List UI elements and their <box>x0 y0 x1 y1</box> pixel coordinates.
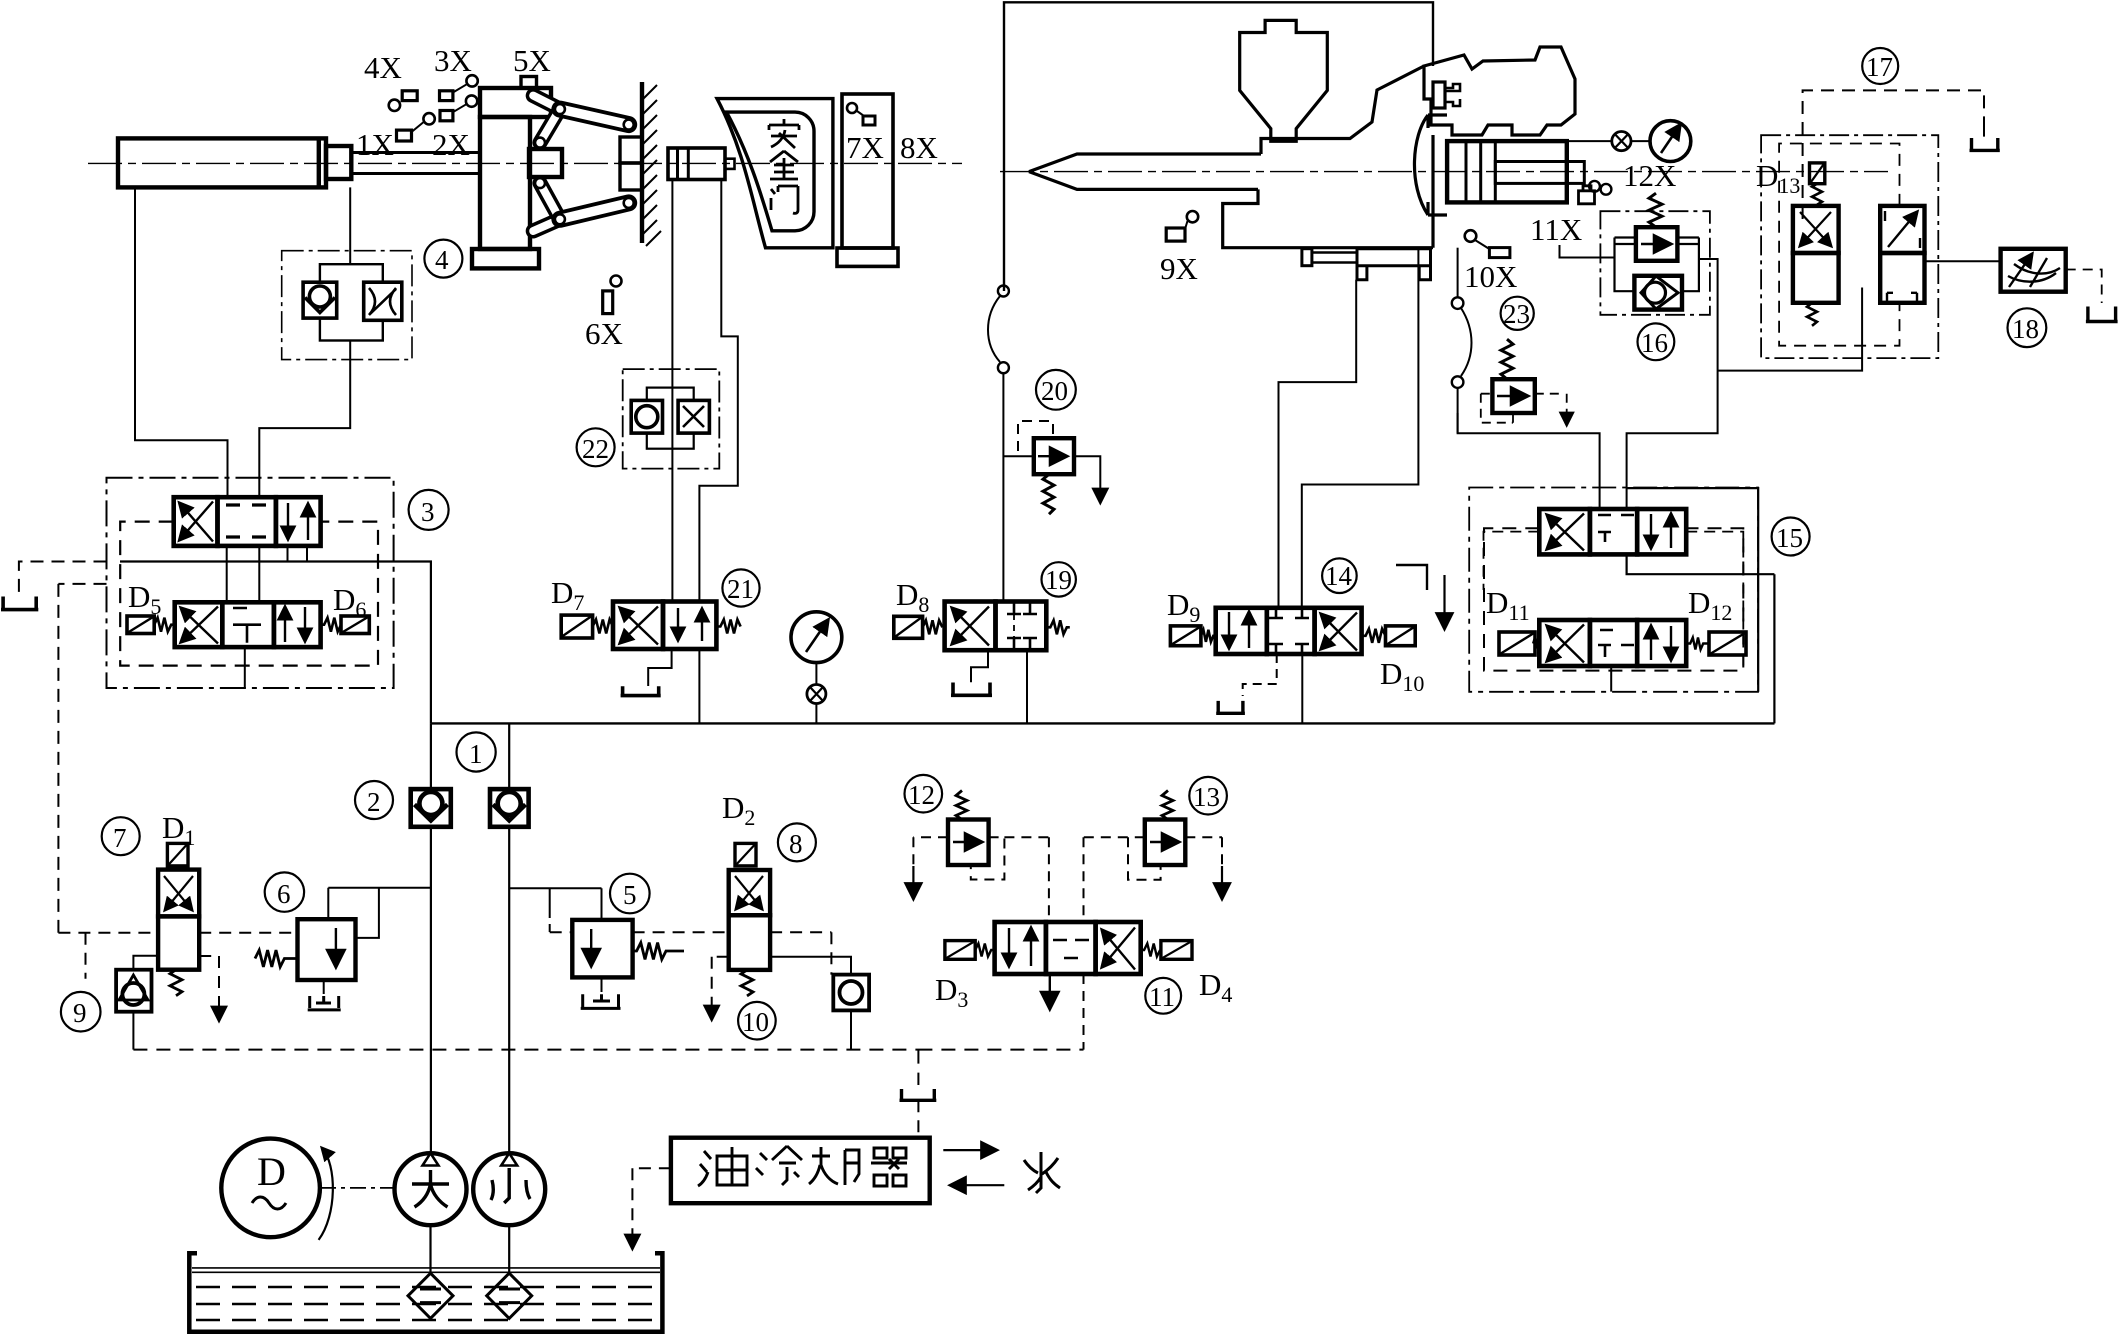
toggle link lower-short (platen to elbow) <box>533 219 560 231</box>
label circled 18 <box>2008 308 2047 347</box>
5X target square on platen <box>521 77 537 89</box>
wire valve20 inlet <box>1003 455 1033 457</box>
toggle pin circles upper <box>555 104 565 114</box>
spring D4 side <box>1141 944 1160 957</box>
valve 20 relief square <box>1034 438 1074 474</box>
wire valve23 bottom bus <box>1458 413 1600 509</box>
svg-text:D12: D12 <box>1688 585 1732 625</box>
check valve 2 <box>411 789 451 827</box>
solenoid D11 <box>1499 632 1535 655</box>
svg-text:9X: 9X <box>1160 251 1198 286</box>
wire injection cylinder to gauge <box>1567 140 1612 142</box>
valve 16 check square <box>1634 276 1682 310</box>
comp 17 outer dashed pilot box <box>1803 90 1984 219</box>
solenoid D13 <box>1810 163 1825 184</box>
svg-text:5: 5 <box>623 880 637 910</box>
svg-text:7X: 7X <box>846 130 884 165</box>
7X switch housing <box>842 94 893 248</box>
valve 3 pilot center-cell marks <box>233 608 261 643</box>
svg-text:D2: D2 <box>722 790 755 830</box>
valve 14 arrows cell <box>1228 612 1230 648</box>
valve 16 relief square <box>1636 227 1678 261</box>
solenoid D7 <box>561 615 592 638</box>
text 安 (an) strokes <box>769 119 799 148</box>
platen top block <box>480 88 551 117</box>
svg-text:6: 6 <box>277 879 291 909</box>
solenoid D10 <box>1386 626 1416 646</box>
svg-text:7: 7 <box>113 823 127 853</box>
label circled 10 <box>738 1002 776 1040</box>
spring below valve8 <box>741 970 753 996</box>
wire ejector head-side down <box>671 180 673 602</box>
component 4 pilot check valve square <box>303 282 337 318</box>
valve 16 relief arrow <box>1641 243 1670 245</box>
pump small circle <box>473 1153 545 1225</box>
svg-text:17: 17 <box>1866 52 1893 82</box>
valve 7 drain dashed arrow <box>199 956 219 1020</box>
10X sensor square <box>1489 248 1510 258</box>
valve 7 upper cell <box>158 870 199 917</box>
valve 8 crossed arrows <box>736 876 763 909</box>
dashed cooler outlet to tank <box>632 1168 671 1248</box>
svg-text:D7: D7 <box>551 575 584 615</box>
svg-text:9: 9 <box>73 998 87 1028</box>
svg-text:2: 2 <box>367 787 381 817</box>
body right edge <box>1431 135 1434 248</box>
component 4 inner frame <box>320 264 383 340</box>
spring D3 side <box>975 944 994 957</box>
spring D7 side <box>593 620 613 634</box>
valve 7 crossed arrows <box>165 876 193 910</box>
valve 13 drain arrow <box>1221 866 1223 898</box>
wire comp17 output to valve18 <box>1925 260 2001 262</box>
svg-text:10X: 10X <box>1464 259 1517 294</box>
P bus main line <box>431 722 1775 724</box>
water arrow out <box>943 1149 996 1151</box>
label circled 21 <box>722 569 759 606</box>
pilot relief valve D13 upper cell <box>1793 206 1839 253</box>
centerline injection axis <box>1000 171 1888 173</box>
valve 23 relief square <box>1492 379 1534 413</box>
toggle link lower-long (elbow to wall pin) <box>560 203 629 219</box>
valve 15 upper valve body <box>1539 509 1686 554</box>
svg-text:22: 22 <box>582 434 609 464</box>
check valve 10 <box>833 975 869 1011</box>
tank drain symbol valve18 <box>2086 307 2118 322</box>
comp 17 inner dashed box <box>1779 144 1899 346</box>
pilot relief crossed arrows <box>1800 212 1831 246</box>
valve 13 spring top <box>1162 791 1173 820</box>
svg-text:3: 3 <box>421 497 435 527</box>
svg-text:23: 23 <box>1503 299 1530 329</box>
label circled 4 <box>424 240 462 278</box>
valve 11 right line to drain bus dashed <box>1083 974 1085 1050</box>
spring D12 side <box>1686 638 1709 650</box>
suction filter large <box>408 1273 453 1318</box>
wire clamp rod-side port down <box>349 187 351 264</box>
gauge isolator valve <box>807 685 826 704</box>
label circled 14 <box>1322 558 1357 593</box>
injection cylinder piston <box>1466 141 1495 202</box>
valve 14 crossed cell <box>1321 614 1357 651</box>
svg-text:8X: 8X <box>900 130 938 165</box>
solenoid D4 <box>1161 941 1192 960</box>
valve 11 center marks <box>1053 940 1089 958</box>
wire valve15 lower to bus <box>1610 666 1612 692</box>
valve 15 upper crossed cell <box>1547 515 1584 551</box>
valve 15 upper center marks <box>1598 515 1634 542</box>
spring below valve7 <box>170 970 182 996</box>
spring valve21 right <box>716 620 740 634</box>
wire pilot-valve tank stub <box>244 647 246 688</box>
platen foot <box>472 249 539 268</box>
oil tank walls <box>189 1253 662 1332</box>
valve 15 upper-right pilot dashed <box>1686 532 1743 670</box>
wire valve21 to P bus <box>698 649 700 723</box>
valve 15 lower valve body <box>1539 620 1686 666</box>
valve 3 pilot crossed-arrows cell <box>181 608 218 644</box>
svg-text:12X: 12X <box>1623 158 1676 193</box>
contact 23 arc <box>1461 308 1472 376</box>
wire valve20 outlet arrow <box>1074 456 1100 502</box>
solenoid D12 <box>1709 632 1746 655</box>
svg-text:D: D <box>257 1149 286 1194</box>
valve 21 body <box>613 602 716 650</box>
valve 16 left port line <box>1560 245 1615 258</box>
svg-text:21: 21 <box>727 574 754 604</box>
tank drain symbol valve14 <box>1216 701 1245 713</box>
motor tilde <box>252 1197 286 1209</box>
spring valve19 right <box>1046 620 1070 634</box>
ejector cylinder piston lines <box>678 148 689 180</box>
component 4 throttle valve square <box>364 282 402 320</box>
screw drive motor outline <box>1424 47 1575 135</box>
valve 6 drain <box>323 980 325 994</box>
pilot dashed lower branch from valve3 <box>58 584 106 933</box>
spring D5 side <box>154 618 174 632</box>
pump small outlet triangle <box>501 1153 517 1165</box>
valve 5 drain <box>601 977 603 992</box>
valve 19 blocked-port cell marks <box>1007 602 1037 651</box>
wire body port B down to valve14 <box>1302 248 1419 608</box>
pump suction lines <box>431 1225 510 1273</box>
spring D11 side <box>1533 639 1539 649</box>
valve 8 lower cell <box>729 915 770 970</box>
injection unit border rectangle <box>1004 2 1433 291</box>
label circled 8 <box>778 823 816 861</box>
wire valve19 to P bus <box>1026 650 1028 723</box>
valve 16 check symbol <box>1645 282 1666 303</box>
ejector cylinder body <box>668 148 725 180</box>
valve 11 body <box>995 922 1141 974</box>
wall anchor block upper <box>620 137 642 163</box>
clamp cylinder body <box>118 138 326 187</box>
clamp piston rod <box>351 153 480 174</box>
wire branch to valve6 <box>328 888 431 938</box>
valve group 3 inner dashed box <box>120 522 378 666</box>
valve 23 drain arrow dashed <box>1566 394 1568 425</box>
7X contact circle <box>847 103 857 113</box>
spring D9 side <box>1201 630 1216 642</box>
svg-text:1: 1 <box>469 739 483 769</box>
wire carriage port A down to valve14 <box>1279 280 1357 608</box>
svg-text:D8: D8 <box>896 577 929 617</box>
label circled 11 <box>1145 978 1181 1014</box>
label circled 17 <box>1862 48 1898 84</box>
valve 18 flow symbol <box>2009 254 2032 287</box>
fixed wall line <box>640 82 644 243</box>
valve 20 pilot dashes <box>1018 421 1053 451</box>
svg-text:D1: D1 <box>162 810 195 850</box>
wire P-channel stubs under main valve <box>288 546 308 562</box>
drain dashed bus <box>133 1049 1083 1051</box>
motor rotation arrow <box>319 1148 333 1240</box>
limit switch 2X <box>440 111 453 121</box>
solenoid D2 <box>735 843 756 866</box>
wire valve15 A-port to bus <box>1627 554 1775 723</box>
tank drain symbol valve21 <box>621 686 661 695</box>
wire branch to valve5 <box>509 888 601 920</box>
valve 22 throttle square <box>678 400 709 433</box>
text 全 (quan) strokes <box>770 151 798 179</box>
spring valve5 right <box>633 943 684 960</box>
svg-text:4X: 4X <box>364 50 402 85</box>
svg-text:8: 8 <box>789 829 803 859</box>
water arrow in <box>951 1184 1004 1186</box>
pump large circle <box>395 1153 467 1225</box>
valve 3 main valve body <box>174 497 321 546</box>
tank drain symbol above oil cooler <box>900 1089 937 1100</box>
valve 12 dashed loops <box>913 837 1049 922</box>
wire gauge to bus <box>815 663 817 724</box>
solenoid D5 <box>127 616 154 634</box>
svg-text:14: 14 <box>1325 561 1353 591</box>
svg-text:19: 19 <box>1045 565 1072 595</box>
7X switch base <box>837 248 898 266</box>
valve 3 pilot valve body (D5/D6) <box>175 602 321 647</box>
svg-text:D9: D9 <box>1167 587 1200 627</box>
solenoid D1 <box>167 843 188 866</box>
text 门 (men) strokes <box>771 186 798 213</box>
text 大 <box>412 1170 449 1207</box>
tank drain symbol valve19 <box>951 683 992 696</box>
valve 8 drain dashed arrow <box>712 957 729 1019</box>
drain bus to oil cooler dashed <box>917 1050 919 1085</box>
wall hatching <box>642 85 661 246</box>
oil cooler box <box>671 1138 930 1204</box>
valve 12 drain arrow <box>912 866 914 898</box>
wire body bottom to contact23 <box>1457 248 1459 298</box>
svg-text:D6: D6 <box>333 582 366 622</box>
svg-text:D13: D13 <box>1756 158 1800 198</box>
11X/12X sensor pair at rod end <box>1589 181 1600 192</box>
label circled 20 <box>1036 370 1076 410</box>
label circled 15 <box>1772 518 1810 556</box>
svg-text:2X: 2X <box>432 127 470 162</box>
却 <box>809 1147 859 1185</box>
svg-text:11X: 11X <box>1530 212 1582 247</box>
valve 15 lower arrows cell <box>1650 626 1652 660</box>
wire comp4 to valve3 <box>259 341 350 498</box>
wire valve14 to P bus <box>1301 654 1303 723</box>
centerline clamp axis <box>88 162 962 164</box>
10X sensor circle <box>1465 230 1477 242</box>
valve 3 main float-center marks <box>226 505 266 537</box>
9X sensor circle <box>1187 211 1198 222</box>
svg-text:D5: D5 <box>128 579 161 619</box>
svg-text:12: 12 <box>908 780 935 810</box>
toggle link upper (elbow to crosshead) <box>540 109 560 143</box>
valve 5 relief square <box>572 920 632 978</box>
svg-text:18: 18 <box>2012 314 2039 344</box>
valve 12 spring top <box>956 791 967 820</box>
limit switch 4X <box>389 100 400 111</box>
valve 12 arrow <box>953 841 981 843</box>
pilot relief lower cell <box>1793 253 1839 303</box>
valve 3 pilot parallel arrows cell <box>284 607 286 642</box>
valve 15 lower crossed cell <box>1547 626 1584 663</box>
oil surface lines <box>192 1268 660 1272</box>
valve 14 drain dashes <box>1243 654 1277 696</box>
svg-text:D4: D4 <box>1199 967 1232 1007</box>
valve 23 spring top <box>1501 339 1513 379</box>
clamp cylinder piston <box>317 138 321 187</box>
wire valve8 to check10 <box>770 957 851 975</box>
pump small discharge line <box>508 723 510 1153</box>
svg-text:5X: 5X <box>513 43 551 78</box>
proportional valve 17 upper cell <box>1880 206 1924 253</box>
contact 23 lower circle <box>1452 376 1464 388</box>
pilot drain dashed to left tank <box>19 562 107 595</box>
wire main-to-pilot interconnect right <box>258 546 260 602</box>
pump large outlet triangle <box>423 1153 439 1165</box>
text 油冷却器 <box>698 1146 907 1186</box>
label circled 7 <box>102 817 140 855</box>
valve 14 center-cell blocked marks <box>1269 608 1309 654</box>
spring valve6 left <box>255 950 297 967</box>
spring D6 side <box>321 618 341 632</box>
wire check10 down to drain bus <box>850 1010 852 1049</box>
valve 11 arrows cell <box>1008 928 1010 966</box>
toggle link upper-short (platen block to elbow) <box>533 96 560 110</box>
moving platen column <box>480 117 530 249</box>
wire contact23 to valve23 <box>1457 388 1459 433</box>
label circled 12 <box>905 775 943 813</box>
electric motor circle <box>221 1139 320 1238</box>
tank drain symbol valve5 <box>581 994 621 1008</box>
pilot dashed line through valve7 <box>58 932 297 934</box>
svg-text:10: 10 <box>742 1007 769 1037</box>
label circled 6 <box>265 872 304 911</box>
valve 15 lower center marks <box>1598 630 1634 657</box>
wire clamp head-side port down <box>135 187 228 497</box>
valve 13 relief square <box>1145 820 1186 866</box>
valve 16 inner frame <box>1615 238 1699 292</box>
carriage mount small block <box>1302 249 1312 266</box>
valve 14 body <box>1216 608 1362 654</box>
valve 15 outer dash-dot box <box>1469 488 1758 692</box>
motor shaft fitting <box>1433 82 1445 108</box>
svg-text:3X: 3X <box>434 43 472 78</box>
toggle link lower (elbow to crosshead) <box>540 183 560 219</box>
label circled 22 <box>577 428 615 466</box>
valve 3 main crossed-arrows cell <box>180 503 214 542</box>
svg-text:D10: D10 <box>1380 656 1424 696</box>
limit switch 3X <box>440 91 453 101</box>
label circled 5 <box>610 874 650 914</box>
label circled 13 <box>1189 777 1227 815</box>
label circled 19 <box>1042 562 1076 596</box>
svg-text:D3: D3 <box>935 972 968 1012</box>
valve 19 crossed-arrows cell <box>952 608 989 646</box>
spring below pilot relief <box>1807 303 1817 326</box>
injection screw <box>1029 154 1261 189</box>
valve 6 arrow down <box>335 928 337 966</box>
svg-text:13: 13 <box>1193 782 1220 812</box>
valve 12 relief square <box>948 820 989 866</box>
spring D8 side <box>923 620 943 634</box>
label circled 1 <box>457 732 496 771</box>
pressure gauge 21 area <box>791 612 842 663</box>
solenoid D9 <box>1170 626 1201 646</box>
valve 13 dashed loops <box>1084 837 1223 922</box>
valve 20 spring below <box>1043 474 1054 514</box>
wire check9 down to drain bus <box>132 1012 134 1050</box>
wire valve21 drain step <box>648 649 671 686</box>
spring valve14 right <box>1362 629 1386 643</box>
svg-text:11: 11 <box>1149 982 1175 1012</box>
safety door outer outline <box>717 99 833 248</box>
text 小 <box>491 1168 530 1203</box>
motor coupling dash-dot <box>320 1187 395 1189</box>
proportional valve arrow <box>1888 212 1917 247</box>
svg-text:16: 16 <box>1641 328 1668 358</box>
body lower block <box>1223 189 1433 247</box>
contact 23 upper circle <box>1452 297 1464 309</box>
text 水 <box>1024 1152 1060 1193</box>
valve 21 crossed-arrows cell <box>620 608 658 645</box>
solenoid D3 <box>945 941 975 960</box>
svg-text:D11: D11 <box>1486 585 1530 625</box>
clamp cylinder rod-end cap <box>326 146 351 179</box>
valve group 3 outer dash-dot box <box>107 478 394 688</box>
valve 23 arrow <box>1497 395 1527 397</box>
svg-text:4: 4 <box>435 245 449 275</box>
label circled 23 <box>1501 297 1534 330</box>
valve 23 dashed enclosure <box>1481 394 1562 423</box>
valve 11 drain arrow <box>1049 974 1051 1008</box>
valve 22 outer dash-dot box <box>623 369 720 469</box>
limit switch 6X <box>603 291 613 314</box>
label circled 9 <box>61 992 101 1032</box>
wire contact to valve19 <box>1002 373 1004 601</box>
valve 16 spring top <box>1649 193 1662 227</box>
oil dashed levels <box>196 1287 658 1320</box>
injection cylinder body <box>1447 141 1567 202</box>
tank drain symbol comp17 top <box>1970 138 2000 150</box>
label circled 2 <box>355 781 393 819</box>
tank drain symbol far left upper <box>1 597 38 610</box>
svg-text:20: 20 <box>1041 376 1068 406</box>
valve 20 arrow <box>1038 455 1066 457</box>
solenoid D6 <box>341 616 369 634</box>
valve 16 outer dash-dot box <box>1600 211 1710 315</box>
check valve 9 <box>116 970 151 1012</box>
contact 20 upper circle <box>998 286 1009 297</box>
wire valve19 drain step <box>971 650 988 682</box>
valve 22 check square <box>631 400 662 433</box>
冷 <box>756 1146 802 1185</box>
